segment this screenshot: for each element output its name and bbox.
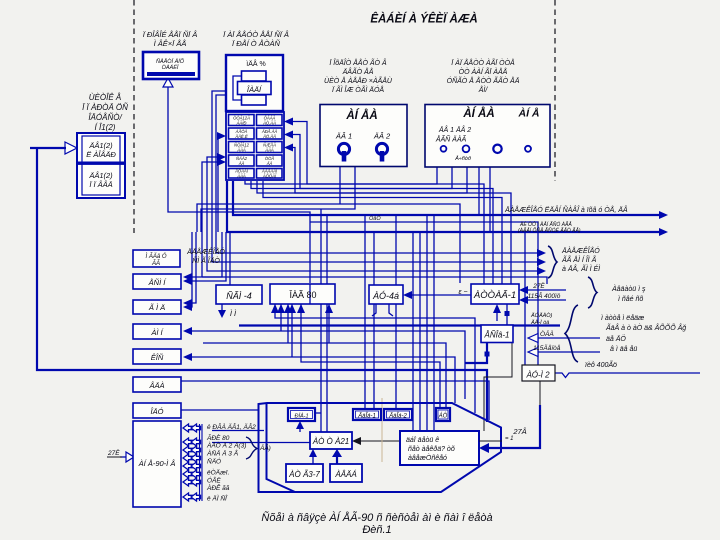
wire through OAG-80: [309, 284, 311, 304]
wire arrow under lamp box A: [163, 78, 173, 87]
svg-text:ÄÂÃÒ ÅÅ: ÄÂÃÒ ÅÅ: [342, 67, 374, 76]
svg-text:äáî äåòü ê: äáî äåòü ê: [406, 436, 439, 444]
svg-text:Ì ÃÄâ Ó: Ì ÃÄâ Ó: [145, 253, 166, 260]
svg-text:ÄÂ 1: ÄÂ 1: [335, 132, 352, 141]
svg-text:ÃäÂ à ò àÒ ä& ÂÕÕÕ Âğ: ÃäÂ à ò àÒ ä& ÂÕÕÕ Âğ: [605, 323, 686, 332]
wire from lamp box A down to bus: [168, 86, 310, 283]
wire x525 to AU-M2: [524, 232, 526, 365]
wire GRI-80 to APTA21: [212, 442, 310, 444]
wire panel F down 3: [289, 148, 467, 194]
wire bus D-bottom 2: [251, 181, 493, 284]
wire TDA arrow: [533, 337, 600, 339]
box APTA21: [310, 432, 352, 449]
svg-text:ïèô 400Ãö: ïèô 400Ãö: [585, 360, 617, 369]
svg-text:ÑÃÌ -4: ÑÃÌ -4: [226, 291, 252, 301]
panel F (ANEA lamps): [425, 105, 550, 168]
svg-text:ÊÎÑ: ÊÎÑ: [151, 353, 164, 362]
wire OAG-80 bottom 2: [280, 304, 282, 331]
wire ROB feeders: [320, 209, 322, 432]
svg-text:à ÄÂ, ÃÌ Ì ÉÌ: à ÄÂ, ÃÌ Ì ÉÌ: [562, 264, 601, 273]
box ODU: [133, 403, 181, 418]
svg-text:ÂÕ.ÃÄ: ÂÕ.ÃÄ: [262, 134, 276, 139]
heater box B: [77, 133, 125, 198]
wire OAG-80 bottom 5: [301, 304, 440, 410]
box ROB-1: [288, 408, 315, 421]
wire KOS long: [188, 357, 455, 403]
svg-text:Ï Ï ÂÂÄ: Ï Ï ÂÂÄ: [89, 180, 112, 189]
svg-text:ìÄÂ %: ìÄÂ %: [246, 59, 265, 68]
wire OAG-80 bottom 1: [275, 304, 475, 413]
svg-text:Ñõåì à ñâÿçè ÀÍ ÅÃ-90 ñ ñèñòåì: Ñõåì à ñâÿçè ÀÍ ÅÃ-90 ñ ñèñòåì àì è ñàì …: [261, 511, 492, 524]
wire long bus to dispatcher arrow 2: [227, 181, 662, 232]
lamp box A: [143, 52, 199, 79]
svg-text:ÀÒÒÀÃ-1: ÀÒÒÀÃ-1: [473, 290, 516, 301]
svg-text:ÀÂÄÁ: ÀÂÄÁ: [334, 470, 356, 479]
svg-text:Ã Ì Ä: Ã Ì Ä: [148, 303, 165, 312]
wire OAG-80 bottom 3: [287, 304, 289, 343]
svg-text:ÂÒ.ÃÂ: ÂÒ.ÃÂ: [262, 121, 276, 126]
svg-text:ÒÒ ÀÀÍ ÃÏ ÀÅÅ: ÒÒ ÀÀÍ ÃÏ ÀÅÅ: [459, 67, 508, 76]
svg-text:ε −: ε −: [458, 289, 467, 296]
panel E (ANEA switches): [320, 105, 407, 167]
wire panel F down 5: [489, 167, 491, 232]
svg-text:ÑÄÓ: ÑÄÓ: [207, 457, 221, 466]
wire bus D-bottom 1: [245, 181, 484, 284]
recorder box C: [226, 55, 283, 111]
wire PSOB bottom dark down: [484, 343, 512, 432]
svg-text:ÀÃÒ Ä 2 Ä(3): ÀÃÒ Ä 2 Ä(3): [206, 441, 246, 450]
wire recorder to brace 1: [216, 95, 540, 253]
wire AVDB to APTA21: [336, 456, 338, 464]
svg-text:ÂÄ: ÂÄ: [238, 161, 245, 166]
wire arrow into box B: [65, 142, 77, 154]
wire AT-G3 to APTA21: [312, 456, 314, 464]
svg-text:Ï ÐÎÂÎÉ ÅÅÏ ÑÏ Â: Ï ÐÎÂÎÉ ÅÅÏ ÑÏ Â: [143, 30, 198, 39]
wire PSOB bottom blue link: [465, 343, 487, 364]
svg-text:(ÀÃÂÍ ÕÑÂ ÃÑÓË ÃÂÒ ÃÂ): (ÀÃÂÍ ÕÑÂ ÃÑÓË ÃÂÒ ÃÂ): [518, 227, 581, 234]
svg-text:Ë ÀÎÂÄÐ: Ë ÀÎÂÄÐ: [86, 150, 116, 159]
svg-text:ÓÑÃÒ Å ÅÒÒ ÃÃÒ ÅÄ: ÓÑÃÒ Å ÅÒÒ ÃÃÒ ÅÄ: [447, 76, 520, 85]
wire panel E down 1: [339, 167, 341, 204]
svg-text:ÄÂÊ.Ë: ÄÂÊ.Ë: [234, 134, 248, 139]
svg-text:ÎÀÃ 80: ÎÀÃ 80: [288, 290, 316, 300]
svg-text:Ï ÃÌ ÎÆ ÒÃÌ ÄÓÅ: Ï ÃÌ ÎÆ ÒÃÌ ÄÓÅ: [332, 85, 384, 94]
wire ESMN arrows: [188, 232, 222, 277]
svg-text:ÂÕÕÃÎ: ÂÕÕÃÎ: [262, 174, 277, 179]
svg-text:ÒÀÁËÎ: ÒÀÁËÎ: [162, 64, 180, 71]
wire thick bus y326: [239, 324, 560, 326]
svg-text:ÀÌ Í: ÀÌ Í: [150, 328, 164, 337]
wire AU-4B arrow: [408, 294, 477, 296]
box AT-G3-7: [286, 464, 323, 482]
box ANE-90-MV: [133, 421, 181, 507]
dashed cabin boundary left: [133, 0, 135, 233]
svg-text:ÄÂ1(2): ÄÂ1(2): [88, 171, 113, 180]
svg-text:êÒÄæî.: êÒÄæî.: [207, 468, 230, 477]
svg-text:Ï ÐÅÍ Ò ÅÒÀÑ: Ï ÐÅÍ Ò ÅÒÀÑ: [232, 39, 281, 48]
svg-text:ÄÂ 2: ÄÂ 2: [373, 132, 391, 141]
svg-text:ÂÄÀ: ÂÄÀ: [148, 381, 164, 390]
svg-text:27Â: 27Â: [512, 427, 526, 436]
svg-text:ÅÑÌ Í: ÅÑÌ Í: [148, 278, 168, 287]
svg-text:ÃÃ ÅÌ Í ÎÌ Ã: ÃÃ ÅÌ Í ÎÌ Ã: [561, 255, 597, 264]
svg-text:ÄÓÄÀÒ): ÄÓÄÀÒ): [530, 312, 553, 319]
svg-text:ÓÂË: ÓÂË: [207, 476, 221, 485]
svg-text:= 1: = 1: [505, 436, 514, 442]
svg-text:ì ñâé ñõ: ì ñâé ñõ: [618, 296, 643, 303]
wire 27V into ANE-90: [107, 456, 120, 458]
brace C: [565, 305, 578, 362]
svg-text:Ï ÀÏ ÅÅÓÒ ÅÅÏ ÑÏ Â: Ï ÀÏ ÅÅÓÒ ÅÅÏ ÑÏ Â: [223, 30, 289, 39]
wire POTAG right 115V: [524, 299, 566, 301]
wire D-row4 to brace 3: [207, 157, 540, 271]
svg-text:ÅÑÎâ-1: ÅÑÎâ-1: [484, 331, 510, 340]
svg-text:ÄÂ1(2): ÄÂ1(2): [88, 141, 113, 150]
box AMN: [133, 324, 181, 339]
svg-text:ÒåÕ: ÒåÕ: [369, 215, 381, 222]
svg-text:ÎÄÓ: ÎÄÓ: [151, 407, 164, 416]
box SGM-4: [216, 285, 262, 304]
svg-text:ÃÐÈ 80: ÃÐÈ 80: [206, 433, 230, 442]
svg-text:ÃÄÂ: ÃÄÂ: [264, 148, 274, 153]
svg-text:Í Î1(2): Í Î1(2): [95, 123, 116, 132]
dashed cabin boundary right: [554, 0, 556, 181]
wire AU-M2 down to 27V feeder: [539, 381, 541, 405]
svg-text:ÎÄÓÅÑÒ/: ÎÄÓÅÑÒ/: [88, 113, 122, 122]
svg-text:ÙÈÒ Å ÀÅÅÐ ×ÀÃÅÙ: ÙÈÒ Å ÀÅÅÐ ×ÀÃÅÙ: [324, 76, 393, 85]
fold artifact line: [381, 398, 383, 462]
svg-text:ÃÂÄ: ÃÂÄ: [236, 148, 246, 153]
svg-text:ÀÈ ÒÓ Ì ÄÂÍ ÃÑÓ ÀÃÂ: ÀÈ ÒÓ Ì ÄÂÍ ÃÑÓ ÀÃÂ: [519, 221, 572, 228]
svg-text:ÀÐÊ ãã: ÀÐÊ ãã: [206, 483, 230, 492]
box GMD: [133, 300, 181, 314]
box KOS: [133, 349, 181, 364]
box 3-line (blocks and systems): [400, 431, 479, 465]
wire ODU to fuselage: [181, 409, 258, 411]
svg-text:ÀÍ Å: ÀÍ Å: [518, 107, 540, 120]
wire verticals into fuselage boxes: [412, 232, 414, 431]
terminal D cell texts: [233, 116, 278, 179]
AU-4B legs: [372, 304, 376, 316]
svg-text:ÄÂ 1 ÄÂ 2: ÄÂ 1 ÄÂ 2: [438, 125, 471, 134]
wire GAOB feeders: [364, 215, 366, 411]
svg-text:ÀÍ ÅÀ: ÀÍ ÅÀ: [345, 109, 377, 122]
wire POTAG right 27V: [524, 289, 566, 291]
svg-text:ÒÄÀ: ÒÄÀ: [540, 329, 554, 338]
svg-text:Ì ÂÊ×Ï ÅÅ: Ì ÂÊ×Ï ÅÅ: [154, 39, 187, 48]
svg-text:ÂÃÎÐ: ÂÃÎÐ: [236, 121, 247, 126]
wire VDA long: [181, 381, 489, 420]
svg-text:ÄÄÅÆÊÎÅÓ: ÄÄÅÆÊÎÅÓ: [186, 247, 225, 256]
box PSOB-1: [481, 325, 513, 343]
wire GMD arrows: [188, 232, 196, 303]
svg-text:ÀÑÄ Ä 3 Â: ÀÑÄ Ä 3 Â: [206, 449, 239, 458]
svg-text:ÀÍ ÅÀ: ÀÍ ÅÀ: [462, 107, 494, 120]
box AU-4B: [369, 285, 403, 304]
svg-text:ÄÀÅÆÊÎÅÓ ËÄÂÍ ÑÀÂÎ à ïõâ ó ÒÅ,: ÄÀÅÆÊÎÅÓ ËÄÂÍ ÑÀÂÎ à ïõâ ó ÒÅ, ÄÂ: [504, 205, 628, 214]
svg-text:ÁÔ: ÁÔ: [438, 413, 448, 420]
wire left feeder to heater box B: [37, 148, 487, 422]
wire OAG-80 bottom 6: [328, 304, 330, 343]
svg-text:ÙÈÒÎÊ Å: ÙÈÒÎÊ Å: [89, 93, 121, 102]
svg-text:Àâäàòü ì ş: Àâäàòü ì ş: [611, 284, 646, 293]
svg-text:ê ÐÂÀ ÄÂ1, ÄÂ2: ê ÐÂÀ ÄÂ1, ÄÂ2: [207, 422, 256, 431]
toggle AV2: [376, 143, 387, 154]
svg-text:â ì äâ åü: â ì äâ åü: [610, 345, 637, 353]
wire D-row5 stub: [202, 162, 221, 277]
svg-text:Ðèñ.1: Ðèñ.1: [362, 524, 391, 536]
box BF: [436, 408, 450, 421]
svg-text:ÀÓ-4á: ÀÓ-4á: [372, 291, 399, 301]
svg-text:ÄÂ: ÄÂ: [266, 161, 273, 166]
brace B: [588, 277, 597, 308]
box VDA: [133, 377, 181, 392]
wire OAG-80 bottom 4: [291, 304, 293, 357]
svg-text:ÀÓ-Ì 2: ÀÓ-Ì 2: [525, 371, 550, 380]
wire bus D-bottom 4: [263, 181, 502, 284]
wire 3line box to APTA21: [358, 440, 400, 442]
wire SGM-4 feeder: [229, 232, 231, 285]
svg-text:27Ë: 27Ë: [532, 282, 545, 290]
fuselage outline: [259, 403, 502, 492]
svg-text:ÃàÎá-2: ÃàÎá-2: [388, 413, 407, 420]
svg-text:ÅÌ/: ÅÌ/: [478, 85, 489, 94]
svg-text:ÑÂÅÒÎ ÂÍÕ: ÑÂÅÒÎ ÂÍÕ: [156, 58, 185, 65]
svg-text:àâåæÒñêåó: àâåæÒñêåó: [408, 453, 447, 462]
box AVDB: [330, 464, 362, 482]
svg-text:ì àòòå ì ëåäæ: ì àòòå ì ëåäæ: [601, 314, 644, 322]
wire panel F down 2: [289, 135, 452, 189]
svg-text:ÎÀÄÍ: ÎÀÄÍ: [247, 85, 263, 94]
wire fan row1 underline: [212, 430, 264, 432]
brace small 3-arrow: [548, 246, 557, 278]
wire MB bus to AU-M2: [310, 222, 538, 365]
box GAOB-1: [353, 409, 381, 420]
svg-text:Ï Ï ÀÐÒÄ ÖÑ: Ï Ï ÀÐÒÄ ÖÑ: [82, 103, 128, 112]
wire SGM-4 MM arrow: [221, 304, 223, 313]
svg-text:Â÷ñòð: Â÷ñòð: [454, 155, 471, 162]
box MGV-1U: [133, 250, 180, 267]
svg-text:ÊÀÁÈÍ À ÝÊÈÏ ÀÆÀ: ÊÀÁÈÍ À ÝÊÈÏ ÀÆÀ: [370, 13, 477, 26]
box ESMN: [133, 274, 181, 289]
toggle AV1: [338, 143, 349, 154]
wire AU-M2 right 115V 400Hz: [555, 373, 700, 378]
svg-text:Ï ÎõÄÎÒ ÅÅÒ ÃÒ Â: Ï ÎõÄÎÒ ÅÅÒ ÃÒ Â: [329, 58, 387, 67]
wire 115V arrow lower: [533, 351, 600, 353]
wire D-row2 left stub: [218, 136, 221, 232]
wire panel F down 4: [478, 167, 480, 215]
wire long bus to dispatcher arrow 1: [233, 181, 662, 215]
fan brace: [246, 437, 257, 459]
box POTAG-1: [471, 284, 519, 304]
svg-text:ÀÒ Ò À21: ÀÒ Ò À21: [312, 437, 349, 446]
svg-text:ÐÎÂ-1: ÐÎÂ-1: [294, 413, 308, 420]
svg-text:ÀÒ Ã3-7: ÀÒ Ã3-7: [288, 470, 320, 479]
wire panel E down 2: [201, 167, 355, 232]
box GAOB-2: [384, 409, 412, 420]
svg-text:27Ë: 27Ë: [107, 449, 120, 457]
wire AMN long: [188, 331, 465, 399]
svg-text:ÂÃÂ: ÂÃÂ: [236, 174, 246, 179]
svg-text:ÀÍ Å-90-Ì Â: ÀÍ Å-90-Ì Â: [138, 459, 176, 468]
svg-text:ÃàÎá-1: ÃàÎá-1: [357, 413, 376, 420]
svg-text:ñåò àåêðä? òõ: ñåò àåêðä? òõ: [408, 445, 455, 453]
svg-text:ÄÂ): ÄÂ): [259, 443, 271, 452]
wire POTAG bottom dot link: [506, 304, 508, 325]
box AU-M2: [522, 365, 555, 381]
box OAG-80: [270, 284, 335, 304]
svg-text:Ì Ì: Ì Ì: [230, 309, 237, 318]
wire ROB-1 to APTA21: [299, 426, 301, 432]
svg-text:115Äåïòå: 115Äåïòå: [533, 344, 561, 352]
svg-text:ÃÃ: ÃÃ: [151, 260, 160, 267]
svg-text:ÄÄ-Ì òä: ÄÄ-Ì òä: [530, 319, 549, 326]
wire bus D-bottom 3: [257, 181, 511, 284]
svg-text:ÑÌ Ã ÎÄÒ: ÑÌ Ã ÎÄÒ: [192, 256, 220, 265]
wire POTAG-PSOB link: [496, 309, 498, 321]
svg-text:ÄÀÅÆÊÎÅÓ: ÄÀÅÆÊÎÅÓ: [561, 246, 600, 255]
svg-text:äå ÄÖ: äå ÄÖ: [606, 335, 626, 343]
svg-text:115Â 400ïö: 115Â 400ïö: [528, 291, 561, 300]
terminal block D: [226, 112, 284, 180]
svg-text:ÅÃÑ ÄÀÃ: ÅÃÑ ÄÀÃ: [435, 135, 467, 144]
wire panel F down 1: [289, 122, 437, 185]
wire recorder to brace 2: [212, 91, 540, 262]
ANE-90 right fan arrows: [183, 424, 202, 501]
svg-text:ê ÄÌ ÑÎ: ê ÄÌ ÑÎ: [207, 494, 228, 503]
svg-text:Ï ÀÏ ÅÅÒÒ ÀÃÏ ÒÒÅ: Ï ÀÏ ÅÅÒÒ ÀÃÏ ÒÒÅ: [451, 58, 515, 67]
BOXES: [77, 52, 555, 507]
